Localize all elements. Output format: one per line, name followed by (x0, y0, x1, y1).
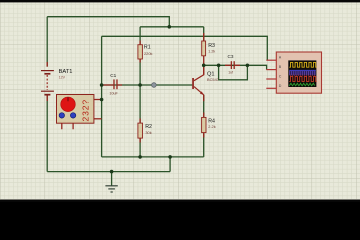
svg-text:C1: C1 (110, 73, 116, 78)
svg-text:10uF: 10uF (109, 92, 118, 96)
waveform channel A (yellow square) (289, 62, 316, 67)
wire emitter column (203, 95, 205, 157)
svg-text:C3: C3 (228, 54, 234, 59)
svg-text:BAT1: BAT1 (59, 69, 73, 75)
svg-text:30k: 30k (145, 130, 151, 135)
wire R2 column (139, 85, 141, 157)
letterbox top (0, 0, 360, 2)
svg-text:BC547: BC547 (207, 77, 219, 82)
wire ground stub (111, 172, 113, 186)
svg-text:12V: 12V (59, 75, 66, 79)
node: mic column / C1 junction (100, 83, 104, 87)
resistor R1 (138, 41, 153, 63)
wire rail B (R1 top to R3 top) (140, 26, 204, 28)
node: loop right junction (246, 64, 250, 68)
wire R3 column (203, 27, 205, 41)
microphone MIC (sounder box) (57, 95, 102, 130)
wire step to ground rail (169, 157, 171, 172)
waveform channel D (green wave) (289, 83, 314, 86)
wire collector node to scope B (204, 65, 267, 69)
svg-text:232?: 232? (80, 99, 90, 122)
waveform channel C (red square) (289, 76, 316, 81)
node: origin marker on base wire (152, 83, 157, 88)
wire R1 column (139, 27, 141, 85)
battery BAT1 (41, 62, 72, 101)
svg-text:220k: 220k (144, 51, 152, 56)
node: collector junction (202, 64, 206, 68)
svg-text:R1: R1 (144, 44, 151, 50)
node: base junction R1/R2 (138, 83, 142, 87)
resistor R2 (138, 119, 152, 143)
wire base line (102, 84, 193, 86)
oscilloscope (266, 52, 321, 93)
node: ground rail junction (110, 170, 114, 174)
node: rail A to rail B junction (168, 25, 172, 29)
letterbox bottom (0, 200, 360, 203)
svg-text:2.2k: 2.2k (208, 124, 215, 129)
node: loop left junction (217, 64, 221, 68)
wire rail A (battery+ to divider top) (47, 17, 169, 27)
waveform channel B (blue band) (289, 71, 316, 76)
wire rail C (mic supply to scope A) (102, 36, 268, 60)
svg-text:1.2k: 1.2k (208, 49, 215, 53)
node: emitter rail step junction (168, 155, 172, 159)
node: R2 bottom junction (138, 155, 142, 159)
wire ground rail (47, 171, 170, 173)
capacitor C1 (104, 73, 123, 96)
svg-text:R3: R3 (208, 43, 215, 49)
resistor R3 (202, 33, 216, 75)
capacitor C3 (225, 54, 240, 74)
ground symbol (105, 186, 117, 192)
wire bypass loop around C3 (219, 65, 248, 80)
wire battery column bottom (46, 95, 48, 172)
wire emitter rail (102, 156, 204, 158)
node: mic pin junction (100, 98, 104, 102)
wire mic column (101, 36, 103, 157)
transistor Q1 (192, 65, 219, 101)
svg-text:1uf: 1uf (228, 71, 233, 75)
wire battery column top (46, 17, 48, 67)
resistor R4 (202, 113, 216, 138)
